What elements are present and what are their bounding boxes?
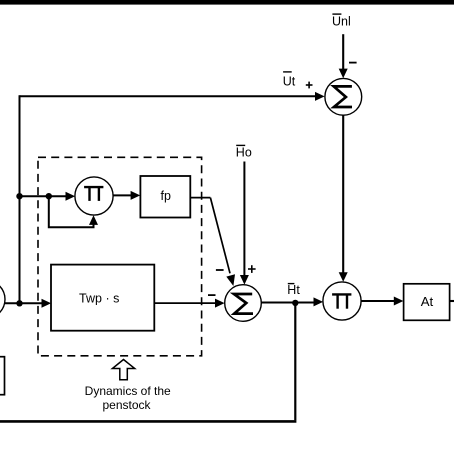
label Ho (with overbar) [236, 145, 252, 159]
wire P1 to block fp [113, 191, 140, 200]
wire Ho to summer S2 [240, 162, 249, 285]
dashed box (dynamics of the penstock) [38, 157, 202, 355]
top border bar [0, 0, 454, 5]
svg-text:fp: fp [161, 189, 171, 203]
svg-text:Twp · s: Twp · s [79, 291, 119, 305]
multiplier P1 circle [75, 177, 113, 215]
block At [404, 284, 450, 321]
wire into block Twp [5, 299, 51, 308]
wire Ht feedback down and left [0, 303, 296, 422]
minus sign at S2 diagonal input [216, 269, 224, 271]
label Ht (with overbar) [287, 283, 300, 297]
minus sign at S2 left input [208, 294, 216, 296]
hollow up arrow pointer [112, 360, 134, 380]
multiplier P2 circle [323, 282, 361, 320]
block fp [140, 176, 190, 218]
wire vertical main branch x=19.5 [19, 95, 21, 304]
block Twp s [51, 265, 154, 331]
svg-text:Ho: Ho [236, 146, 252, 160]
node dot feedback branch [46, 193, 52, 199]
svg-text:Dynamics of the: Dynamics of the [85, 384, 171, 398]
wire fp to summer S2 (diagonal) [190, 198, 235, 286]
wire Ut feedback (left corner to S1) [20, 92, 325, 101]
multiplier P1 pi glyph [84, 187, 103, 201]
wire into multiplier P1 [20, 192, 76, 201]
wire S2 to multiplier P2 [261, 297, 323, 306]
label Ut (with overbar) [283, 72, 296, 89]
cut-off circle at left edge [0, 280, 5, 318]
svg-text:Ht: Ht [287, 283, 300, 297]
plus sign at S1 left input [306, 82, 313, 89]
summer S1 circle [325, 78, 362, 115]
wire P2 to block At [361, 297, 403, 306]
svg-text:Ut: Ut [283, 74, 296, 88]
plus sign at S2 top input [248, 265, 256, 273]
wire S1 to multiplier P2 [339, 115, 348, 282]
minus sign at S1 top input [349, 62, 357, 64]
wire At output to right edge [450, 300, 454, 302]
node dot on vertical branch at P1 input [16, 193, 22, 199]
svg-text:At: At [421, 294, 434, 309]
multiplier P2 pi glyph [332, 294, 351, 308]
wire P1 self feedback loop [49, 196, 98, 227]
svg-text:Unl: Unl [332, 15, 351, 29]
cut-off box at bottom left edge [0, 357, 5, 395]
summer S2 sigma glyph [234, 294, 253, 314]
svg-text:penstock: penstock [102, 398, 151, 412]
label Unl (with overbar) [332, 14, 351, 29]
summer S2 circle [225, 285, 262, 322]
summer S1 sigma glyph [334, 86, 352, 107]
wire Unl to summer S1 [339, 34, 348, 78]
wire Twp to summer S2 [154, 299, 224, 308]
node dot Ht [292, 300, 298, 306]
node dot at Twp input [16, 300, 22, 306]
